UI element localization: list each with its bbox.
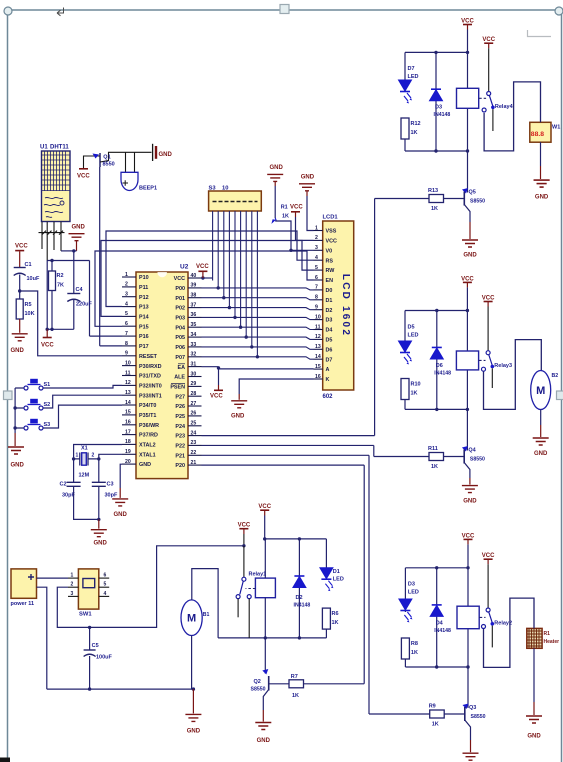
svg-text:10: 10: [125, 360, 131, 366]
svg-text:Q2: Q2: [254, 679, 261, 685]
svg-text:1K: 1K: [411, 391, 418, 397]
svg-text:D1: D1: [333, 569, 340, 575]
svg-text:P07: P07: [175, 355, 185, 361]
svg-text:VSS: VSS: [326, 229, 337, 235]
svg-text:D2: D2: [296, 595, 303, 601]
svg-text:S1: S1: [44, 382, 51, 388]
svg-text:18: 18: [125, 439, 131, 445]
svg-text:D0: D0: [326, 288, 333, 294]
svg-text:11: 11: [315, 324, 321, 330]
svg-text:20: 20: [125, 459, 131, 465]
svg-text:D3: D3: [435, 105, 442, 111]
svg-text:Q3: Q3: [469, 705, 476, 711]
svg-text:26: 26: [191, 411, 197, 417]
svg-text:P35/T1: P35/T1: [139, 413, 156, 419]
svg-text:P05: P05: [175, 335, 185, 341]
svg-text:S8550: S8550: [470, 457, 485, 463]
svg-text:GND: GND: [187, 729, 201, 735]
svg-text:VCC: VCC: [462, 533, 475, 539]
svg-text:4: 4: [315, 255, 318, 261]
svg-text:V0: V0: [326, 248, 333, 254]
svg-text:LED: LED: [408, 590, 419, 596]
svg-text:IN4148: IN4148: [434, 628, 451, 634]
svg-text:1: 1: [315, 225, 318, 231]
svg-text:8: 8: [315, 295, 318, 301]
svg-text:Q1: Q1: [103, 154, 110, 160]
svg-text:P21: P21: [175, 453, 185, 459]
svg-text:28: 28: [191, 391, 197, 397]
svg-text:LED: LED: [408, 74, 419, 80]
svg-text:14: 14: [315, 354, 321, 360]
svg-text:R11: R11: [428, 446, 438, 452]
svg-text:RESET: RESET: [139, 354, 158, 360]
svg-text:VCC: VCC: [482, 553, 495, 559]
svg-text:K: K: [326, 377, 330, 383]
svg-text:1K: 1K: [411, 650, 418, 656]
svg-text:C1: C1: [25, 262, 32, 268]
svg-text:D7: D7: [326, 357, 333, 363]
svg-text:7K: 7K: [57, 283, 64, 289]
svg-text:Heater: Heater: [544, 639, 560, 645]
svg-text:LED: LED: [333, 577, 344, 583]
svg-text:1K: 1K: [332, 620, 339, 626]
svg-text:ALE: ALE: [174, 375, 185, 381]
svg-text:8550: 8550: [103, 162, 115, 168]
svg-text:3: 3: [125, 292, 128, 298]
svg-text:X1: X1: [81, 446, 88, 452]
svg-text:P17: P17: [139, 344, 149, 350]
svg-text:D5: D5: [408, 325, 415, 331]
svg-text:Relay4: Relay4: [495, 104, 514, 110]
svg-text:2: 2: [125, 282, 128, 288]
svg-text:D4: D4: [326, 328, 333, 334]
svg-text:Q4: Q4: [468, 448, 476, 454]
svg-text:M: M: [536, 385, 545, 397]
svg-text:GND: GND: [270, 165, 284, 171]
svg-text:R13: R13: [428, 188, 438, 194]
svg-text:Relay3: Relay3: [494, 363, 512, 369]
svg-text:C4: C4: [76, 287, 84, 293]
svg-text:P26: P26: [175, 404, 185, 410]
svg-text:BEEP1: BEEP1: [139, 186, 157, 192]
svg-text:VCC: VCC: [77, 174, 90, 180]
svg-text:S8550: S8550: [251, 687, 266, 693]
svg-text:P24: P24: [175, 424, 185, 430]
svg-text:P06: P06: [175, 345, 185, 351]
svg-text:VCC: VCC: [461, 276, 474, 282]
svg-text:P15: P15: [139, 324, 149, 330]
svg-text:R1: R1: [281, 205, 288, 211]
svg-text:30pF: 30pF: [105, 493, 118, 499]
svg-text:VCC: VCC: [196, 264, 209, 270]
svg-text:B2: B2: [552, 373, 559, 379]
svg-text:24: 24: [191, 430, 197, 436]
svg-text:88.8: 88.8: [531, 131, 544, 138]
svg-text:P01: P01: [175, 296, 185, 302]
svg-text:VCC: VCC: [461, 19, 474, 25]
svg-text:LCD 1602: LCD 1602: [340, 274, 351, 337]
svg-text:R12: R12: [411, 121, 421, 127]
svg-text:RS: RS: [326, 258, 334, 264]
svg-text:B1: B1: [203, 612, 210, 618]
svg-text:D7: D7: [408, 66, 415, 72]
svg-text:16: 16: [315, 374, 321, 380]
svg-text:P04: P04: [175, 325, 185, 331]
svg-text:P13: P13: [139, 305, 149, 311]
svg-text:10K: 10K: [25, 311, 35, 317]
svg-text:EA: EA: [178, 365, 186, 371]
svg-text:19: 19: [125, 449, 131, 455]
svg-text:GND: GND: [231, 414, 245, 420]
svg-text:10: 10: [222, 186, 228, 192]
svg-text:29: 29: [191, 381, 197, 387]
svg-text:4: 4: [125, 301, 128, 307]
svg-text:13: 13: [315, 344, 321, 350]
svg-text:P32/INT0: P32/INT0: [139, 384, 162, 390]
svg-text:602: 602: [323, 394, 334, 400]
svg-text:36: 36: [191, 312, 197, 318]
svg-text:15: 15: [315, 364, 321, 370]
svg-text:VCC: VCC: [482, 37, 495, 43]
svg-text:S2: S2: [44, 402, 51, 408]
svg-text:W1: W1: [552, 125, 560, 131]
svg-text:R8: R8: [411, 641, 418, 647]
svg-text:37: 37: [191, 302, 197, 308]
svg-text:P10: P10: [139, 275, 149, 281]
svg-text:DHT11: DHT11: [50, 145, 69, 151]
svg-text:27: 27: [191, 401, 197, 407]
svg-text:SW1: SW1: [79, 612, 92, 618]
svg-text:P25: P25: [175, 414, 185, 420]
svg-text:GND: GND: [11, 348, 25, 354]
svg-text:12: 12: [315, 334, 321, 340]
svg-text:U1: U1: [40, 145, 48, 151]
svg-text:2: 2: [315, 235, 318, 241]
svg-text:S3: S3: [209, 186, 217, 192]
svg-text:S8550: S8550: [470, 199, 485, 205]
svg-text:12M: 12M: [79, 473, 90, 479]
svg-text:1K: 1K: [411, 130, 418, 136]
svg-text:XTAL2: XTAL2: [139, 443, 156, 449]
svg-text:5: 5: [125, 311, 128, 317]
svg-text:R2: R2: [57, 273, 64, 279]
svg-text:3: 3: [315, 245, 318, 251]
svg-text:P33/INT1: P33/INT1: [139, 393, 162, 399]
svg-text:LED: LED: [408, 333, 419, 339]
svg-text:40: 40: [191, 273, 197, 279]
svg-text:S8550: S8550: [471, 714, 486, 720]
svg-text:C2: C2: [60, 482, 67, 488]
svg-text:RW: RW: [326, 268, 336, 274]
svg-text:21: 21: [191, 460, 197, 466]
svg-text:S3: S3: [44, 422, 51, 428]
svg-text:15: 15: [125, 410, 131, 416]
svg-text:VCC: VCC: [326, 239, 337, 245]
svg-text:IN4148: IN4148: [434, 370, 451, 376]
svg-text:R1: R1: [544, 631, 551, 637]
svg-text:10uF: 10uF: [27, 276, 40, 282]
svg-text:39: 39: [191, 283, 197, 289]
svg-text:GND: GND: [94, 541, 108, 547]
svg-text:6: 6: [104, 573, 107, 579]
svg-text:U2: U2: [180, 264, 189, 271]
svg-text:GND: GND: [139, 462, 151, 468]
svg-text:10: 10: [315, 314, 321, 320]
svg-text:P30/RXD: P30/RXD: [139, 364, 162, 370]
svg-text:EN: EN: [326, 278, 334, 284]
svg-text:power 11: power 11: [11, 601, 35, 607]
svg-text:PSEN: PSEN: [170, 385, 185, 391]
svg-text:9: 9: [125, 351, 128, 357]
svg-text:1K: 1K: [431, 206, 438, 212]
svg-text:VCC: VCC: [41, 343, 54, 349]
svg-text:1: 1: [71, 573, 74, 579]
svg-text:IN4148: IN4148: [294, 603, 311, 609]
svg-text:9: 9: [315, 305, 318, 311]
svg-text:GND: GND: [463, 253, 477, 259]
svg-text:GND: GND: [257, 738, 271, 744]
svg-text:GND: GND: [159, 152, 173, 158]
svg-text:A: A: [326, 367, 330, 373]
svg-text:220uF: 220uF: [76, 302, 93, 308]
svg-text:P36/WR: P36/WR: [139, 423, 159, 429]
svg-text:R7: R7: [291, 674, 298, 680]
svg-text:XTAL1: XTAL1: [139, 452, 156, 458]
svg-text:D6: D6: [436, 363, 443, 369]
svg-text:VCC: VCC: [482, 296, 495, 302]
svg-text:3: 3: [71, 591, 74, 597]
svg-text:6: 6: [125, 321, 128, 327]
svg-text:VCC: VCC: [290, 205, 303, 211]
svg-text:100uF: 100uF: [96, 655, 113, 661]
svg-text:P34/T0: P34/T0: [139, 403, 156, 409]
svg-text:P00: P00: [175, 286, 185, 292]
svg-text:D3: D3: [408, 582, 415, 588]
svg-text:R10: R10: [411, 382, 421, 388]
svg-text:2: 2: [92, 453, 95, 459]
svg-text:GND: GND: [463, 499, 477, 505]
svg-text:25: 25: [191, 421, 197, 427]
svg-text:4: 4: [104, 591, 107, 597]
svg-text:6: 6: [315, 275, 318, 281]
svg-text:D6: D6: [326, 347, 333, 353]
svg-text:31: 31: [191, 361, 197, 367]
svg-text:33: 33: [191, 342, 197, 348]
svg-text:38: 38: [191, 293, 197, 299]
svg-text:12: 12: [125, 380, 131, 386]
svg-text:P23: P23: [175, 434, 185, 440]
svg-text:C5: C5: [92, 643, 99, 649]
svg-text:1: 1: [125, 272, 128, 278]
svg-text:5: 5: [104, 582, 107, 588]
svg-text:D1: D1: [326, 298, 333, 304]
svg-text:1K: 1K: [432, 722, 439, 728]
svg-text:P16: P16: [139, 334, 149, 340]
svg-text:8: 8: [125, 341, 128, 347]
svg-text:35: 35: [191, 322, 197, 328]
svg-text:1: 1: [76, 453, 79, 459]
svg-text:Relay1: Relay1: [249, 572, 267, 578]
svg-text:VCC: VCC: [210, 394, 223, 400]
svg-text:P03: P03: [175, 316, 185, 322]
svg-text:D4: D4: [436, 620, 444, 626]
svg-text:1K: 1K: [282, 214, 289, 220]
svg-text:GND: GND: [72, 225, 86, 231]
svg-text:7: 7: [125, 331, 128, 337]
svg-text:D3: D3: [326, 318, 333, 324]
svg-text:GND: GND: [527, 733, 541, 739]
svg-text:R9: R9: [429, 704, 436, 710]
svg-text:IN4148: IN4148: [434, 112, 451, 118]
svg-text:M: M: [187, 613, 196, 625]
svg-text:GND: GND: [535, 194, 549, 200]
svg-text:GND: GND: [534, 451, 548, 457]
svg-text:GND: GND: [114, 512, 128, 518]
svg-text:P11: P11: [139, 285, 148, 291]
svg-text:VCC: VCC: [258, 504, 271, 510]
svg-text:1K: 1K: [431, 464, 438, 470]
svg-text:VCC: VCC: [238, 523, 251, 529]
svg-text:D2: D2: [326, 308, 333, 314]
svg-text:P02: P02: [175, 306, 185, 312]
svg-text:32: 32: [191, 352, 197, 358]
svg-text:14: 14: [125, 400, 131, 406]
svg-text:16: 16: [125, 420, 131, 426]
svg-text:Q5: Q5: [469, 190, 476, 196]
svg-text:R6: R6: [332, 611, 339, 617]
svg-text:P37/RD: P37/RD: [139, 433, 158, 439]
svg-text:R5: R5: [25, 302, 32, 308]
svg-text:P20: P20: [175, 463, 185, 469]
svg-text:13: 13: [125, 390, 131, 396]
svg-text:1K: 1K: [292, 693, 299, 699]
svg-text:GND: GND: [301, 174, 315, 180]
svg-text:23: 23: [191, 440, 197, 446]
svg-text:11: 11: [125, 370, 131, 376]
svg-text:17: 17: [125, 429, 131, 435]
svg-text:GND: GND: [11, 463, 25, 469]
svg-text:P31/TXD: P31/TXD: [139, 374, 161, 380]
svg-text:30: 30: [191, 371, 197, 377]
svg-text:P14: P14: [139, 315, 149, 321]
svg-text:2: 2: [71, 582, 74, 588]
svg-text:5: 5: [315, 265, 318, 271]
svg-text:P22: P22: [175, 444, 185, 450]
svg-text:P12: P12: [139, 295, 149, 301]
svg-text:D5: D5: [326, 338, 333, 344]
svg-text:34: 34: [191, 332, 197, 338]
svg-text:P27: P27: [175, 394, 185, 400]
svg-text:7: 7: [315, 285, 318, 291]
svg-text:22: 22: [191, 450, 197, 456]
svg-text:LCD1: LCD1: [323, 215, 339, 221]
svg-text:VCC: VCC: [174, 276, 185, 282]
svg-text:C3: C3: [107, 482, 114, 488]
svg-text:VCC: VCC: [15, 244, 28, 250]
